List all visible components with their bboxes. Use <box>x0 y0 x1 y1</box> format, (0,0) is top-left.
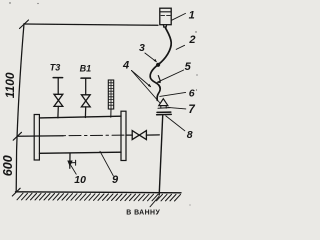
drain valve head <box>68 161 72 166</box>
outlet valve (bow-tie) <box>132 131 139 140</box>
svg-text:9: 9 <box>112 174 119 186</box>
valve B1 handle <box>81 77 90 79</box>
valve T3 stem <box>57 78 59 95</box>
junction dot 3 <box>156 63 160 67</box>
funnel 7 <box>159 99 168 106</box>
dimension tick at tank axis <box>13 132 21 140</box>
svg-text:7: 7 <box>188 104 195 116</box>
valve B1 stem <box>85 78 87 95</box>
tank centerline (dash-dot) <box>17 135 63 138</box>
tank (vessel 9) body <box>40 116 122 118</box>
node: axis extension to valve <box>126 134 132 136</box>
ground hatching <box>17 193 181 201</box>
svg-text:4: 4 <box>122 59 129 71</box>
svg-text:10: 10 <box>74 174 86 186</box>
svg-text:2: 2 <box>188 34 195 46</box>
paper specks <box>9 2 197 205</box>
wire: left vertical dimension/wall line <box>16 24 24 192</box>
ground line <box>16 192 182 193</box>
leader 8 <box>166 116 185 131</box>
leader 10 <box>71 166 76 175</box>
down-pipe to bath <box>159 116 163 195</box>
tank right flange <box>121 111 126 160</box>
svg-text:1: 1 <box>189 10 195 22</box>
svg-text:Т3: Т3 <box>50 63 61 73</box>
leader 1 <box>172 13 186 20</box>
hose 2 <box>158 27 171 65</box>
leader 4b with arrow <box>132 71 151 87</box>
leader 2 <box>176 45 184 49</box>
dimension tick top corner <box>20 20 29 29</box>
cylinder neck <box>162 25 164 28</box>
valve B1 lower stem <box>84 107 86 118</box>
wire: top shelf line <box>24 24 158 25</box>
valve T3 handle <box>53 77 62 79</box>
valve T3 body <box>54 94 63 100</box>
svg-text:В1: В1 <box>80 63 92 73</box>
leader 9 <box>100 151 113 176</box>
svg-text:6: 6 <box>189 87 195 99</box>
leader 5 with arrow <box>157 70 183 82</box>
thermometer pocket <box>108 80 113 109</box>
thermometer stem <box>110 109 112 117</box>
svg-text:1100: 1100 <box>3 72 17 98</box>
svg-text:600: 600 <box>1 155 15 176</box>
flange 8 <box>157 111 171 113</box>
leader 3 with arrow <box>145 53 156 62</box>
dimension tick at ground <box>12 188 20 196</box>
leader to bath text <box>150 196 159 206</box>
leader 7 <box>168 107 186 109</box>
wire: valve to down-pipe <box>146 134 159 136</box>
valve T3 lower stem <box>57 106 59 117</box>
svg-text:3: 3 <box>139 42 145 54</box>
tank left flange <box>34 115 39 161</box>
leader 4a <box>132 71 161 104</box>
svg-text:8: 8 <box>187 129 193 141</box>
cylinder 1 body <box>160 8 171 25</box>
drain stub 10 <box>69 153 71 168</box>
valve B1 body <box>81 95 90 101</box>
hose clamp 5 <box>158 76 160 82</box>
leader 6 <box>160 92 186 96</box>
svg-text:В ВАННУ: В ВАННУ <box>126 209 160 216</box>
svg-text:5: 5 <box>185 61 192 73</box>
